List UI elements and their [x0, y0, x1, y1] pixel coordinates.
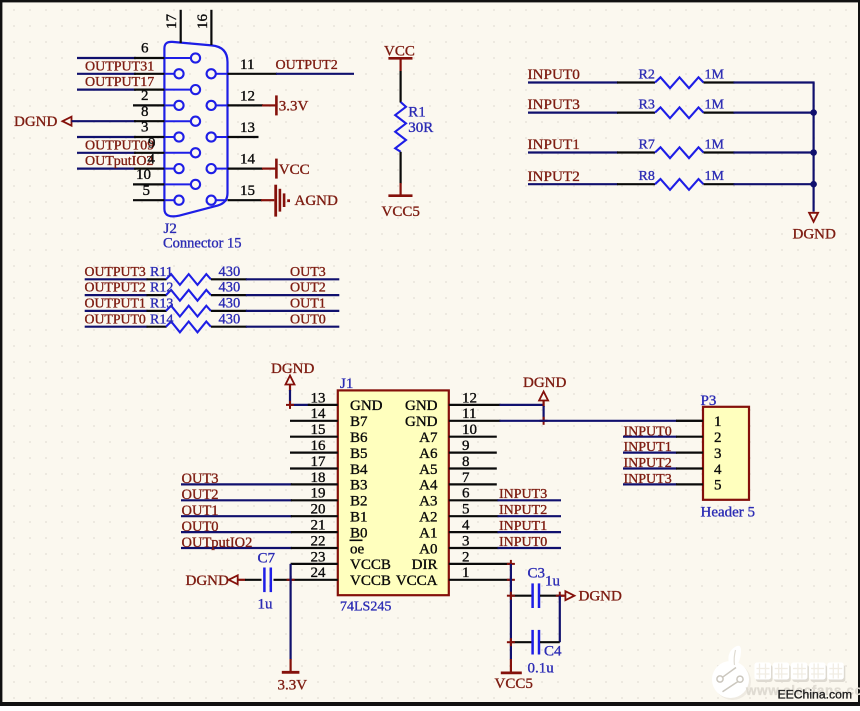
connector J2 pin circles [166, 53, 228, 204]
svg-text:OUTPUT31: OUTPUT31 [85, 59, 154, 74]
svg-text:VCC5: VCC5 [495, 676, 533, 692]
wire DGND bus [812, 83, 814, 212]
svg-text:OUTPUT1: OUTPUT1 [85, 296, 146, 311]
svg-text:1: 1 [714, 414, 722, 430]
wire C3/C4 right leg [559, 596, 561, 643]
svg-text:OUTPUT2: OUTPUT2 [276, 58, 338, 73]
net INPUT3 wire (IC pin 6) [449, 487, 561, 502]
svg-text:13: 13 [240, 120, 255, 136]
power port DGND (J2 pin 8) [14, 114, 72, 130]
junction [287, 576, 295, 584]
svg-text:DGND: DGND [14, 114, 57, 130]
svg-text:GND: GND [405, 414, 438, 430]
net INPUT3 wire (P3 pin 5) [623, 472, 703, 487]
svg-text:8: 8 [141, 104, 149, 120]
svg-text:17: 17 [164, 14, 180, 30]
net INPUT1 wire [528, 136, 619, 153]
svg-text:1M: 1M [705, 67, 725, 82]
svg-text:INPUT0: INPUT0 [499, 535, 547, 550]
svg-text:A5: A5 [419, 462, 437, 478]
svg-text:OUTPUT09: OUTPUT09 [85, 138, 154, 153]
svg-text:A7: A7 [419, 430, 438, 446]
svg-text:4: 4 [148, 151, 156, 167]
svg-text:DIR: DIR [412, 557, 438, 573]
svg-text:2: 2 [714, 430, 722, 446]
svg-text:DGND: DGND [579, 589, 622, 605]
svg-text:6: 6 [141, 41, 149, 57]
wire DGND to pin 13 [286, 385, 338, 409]
junction [810, 181, 817, 188]
power port VCC (J2 pin 14) [228, 152, 310, 179]
svg-text:INPUT0: INPUT0 [528, 66, 581, 83]
svg-text:EEChina.com: EEChina.com [778, 688, 853, 702]
svg-text:3: 3 [141, 120, 149, 136]
junction [810, 149, 817, 156]
IC pin 15 wire [290, 436, 338, 438]
svg-text:VCCB: VCCB [350, 557, 391, 573]
IC pin 7 wire [449, 483, 497, 485]
net OUT1 wire [246, 297, 339, 312]
svg-text:INPUT0: INPUT0 [624, 424, 672, 439]
resistor R7 1M [617, 137, 735, 158]
J2 pin 13 wire [228, 120, 259, 137]
svg-text:INPUT2: INPUT2 [624, 456, 672, 471]
svg-text:DGND: DGND [186, 573, 229, 589]
resistor R14 430 [147, 311, 247, 332]
power port DGND (above pin 13) [271, 361, 314, 385]
IC pin 8 wire [449, 467, 497, 469]
svg-text:B5: B5 [350, 446, 368, 462]
power port VCC5 (bottom right) [495, 659, 533, 692]
svg-text:C4: C4 [544, 643, 562, 659]
net INPUT1 wire (P3 pin 3) [623, 440, 703, 455]
svg-text:430: 430 [219, 296, 241, 312]
svg-text:R2: R2 [639, 67, 655, 82]
svg-text:VCC5: VCC5 [382, 204, 420, 220]
IC pin 12 wire [449, 404, 544, 406]
wire DGND drop [540, 401, 548, 425]
svg-text:OUTPUT2: OUTPUT2 [85, 280, 146, 295]
power port VCC5 (R1 bottom) [382, 183, 420, 220]
svg-text:OUT3: OUT3 [182, 471, 219, 487]
svg-text:C7: C7 [258, 550, 276, 566]
svg-text:R13: R13 [150, 297, 173, 312]
svg-text:R14: R14 [150, 312, 173, 327]
svg-text:5: 5 [714, 478, 722, 494]
svg-text:1u: 1u [258, 597, 274, 613]
net OUTPUT0 wire [85, 311, 148, 326]
power port 3.3V (bottom) [278, 659, 308, 694]
net INPUT2 wire (P3 pin 4) [623, 456, 703, 471]
svg-text:B3: B3 [350, 478, 368, 494]
J2 pin 4 wire / net OUTputIO2 [77, 151, 164, 169]
svg-text:P3: P3 [701, 393, 717, 409]
capacitor C7 1u [245, 550, 276, 612]
watermark EEChina.com [778, 688, 853, 702]
svg-text:74LS245: 74LS245 [340, 600, 391, 615]
svg-text:Connector 15: Connector 15 [163, 235, 242, 251]
J2 pin 6 wire [77, 41, 164, 58]
svg-text:B7: B7 [350, 414, 368, 430]
IC pin 1 wire [449, 576, 515, 584]
svg-text:VCCA: VCCA [396, 573, 438, 589]
svg-text:OUT2: OUT2 [182, 487, 219, 503]
svg-text:B1: B1 [350, 510, 368, 526]
pin 17 (top) [164, 10, 181, 43]
net OUTPUT1 wire [85, 296, 148, 311]
svg-text:R1: R1 [408, 104, 426, 120]
svg-text:9: 9 [148, 136, 156, 152]
net OUT0 wire (IC pin 21) [181, 519, 338, 535]
net OUTPUT2 wire [85, 280, 148, 295]
svg-text:C3: C3 [528, 565, 546, 581]
svg-text:INPUT3: INPUT3 [528, 96, 580, 113]
power port DGND (above P3 wire) [523, 375, 566, 401]
svg-text:OUT3: OUT3 [290, 265, 326, 280]
J2 pin 7 wire / net OUTPUT17 [77, 75, 164, 90]
IC J1 pin labels and numbers [311, 390, 478, 589]
IC pin 16 wire [290, 452, 338, 454]
svg-text:B6: B6 [350, 430, 368, 446]
svg-text:GND: GND [350, 398, 383, 414]
svg-text:R7: R7 [639, 137, 655, 152]
J2 designator [164, 221, 177, 237]
svg-text:DGND: DGND [523, 375, 566, 391]
svg-text:R3: R3 [639, 97, 655, 112]
power port DGND (C7 left) [186, 573, 246, 589]
svg-text:1M: 1M [705, 137, 725, 152]
net OUT3 wire [246, 265, 339, 280]
svg-text:OUT2: OUT2 [290, 281, 326, 296]
wire [734, 111, 815, 113]
svg-text:R8: R8 [639, 169, 655, 184]
pin 16 (top) [195, 10, 211, 45]
watermark logo [712, 646, 751, 700]
wire [734, 81, 815, 83]
junction [810, 109, 817, 116]
svg-text:J1: J1 [340, 376, 353, 392]
op-amp U1 74LS245 IC J1 body [338, 376, 449, 614]
svg-text:3: 3 [714, 446, 722, 462]
svg-text:R12: R12 [150, 281, 173, 296]
svg-text:1M: 1M [705, 169, 725, 184]
J2 pin 2 wire [133, 88, 164, 105]
net INPUT2 wire [528, 168, 619, 185]
svg-text:3.3V: 3.3V [279, 99, 309, 115]
J2 pin 1 wire / net OUTPUT31 [77, 59, 164, 74]
svg-text:R11: R11 [150, 265, 173, 280]
svg-text:OUT0: OUT0 [290, 312, 326, 327]
svg-text:AGND: AGND [295, 193, 338, 209]
svg-text:16: 16 [195, 14, 211, 30]
J2 pin 11 wire / net OUTPUT2 [228, 57, 355, 74]
IC pin 11 wire to P3 pin 1 [449, 420, 703, 422]
svg-text:INPUT2: INPUT2 [499, 503, 547, 518]
svg-text:4: 4 [714, 462, 722, 478]
power port 3.3V (J2 pin 12) [228, 88, 309, 115]
connector J2 body [164, 42, 227, 217]
svg-text:430: 430 [219, 280, 241, 296]
net INPUT2 wire (IC pin 5) [449, 503, 561, 518]
wire to 3.3V [290, 564, 292, 660]
watermark url ghost [745, 683, 860, 698]
resistor R8 1M [617, 169, 735, 190]
IC pin 24 wire [274, 579, 338, 581]
net INPUT3 wire [528, 96, 619, 113]
svg-text:2: 2 [141, 88, 149, 104]
resistor R12 430 [147, 280, 247, 301]
svg-text:15: 15 [240, 183, 255, 199]
svg-text:OUT0: OUT0 [182, 519, 219, 535]
IC pin 9 wire [449, 452, 497, 454]
svg-text:1u: 1u [545, 574, 561, 590]
svg-text:INPUT1: INPUT1 [624, 440, 672, 455]
svg-text:A0: A0 [419, 541, 437, 557]
net INPUT0 wire (P3 pin 2) [623, 424, 703, 439]
resistor R11 430 [147, 264, 247, 285]
svg-text:11: 11 [240, 57, 254, 73]
svg-text:OUTPUT3: OUTPUT3 [85, 264, 146, 279]
svg-text:INPUT1: INPUT1 [528, 136, 580, 153]
wire [734, 183, 815, 185]
svg-text:30R: 30R [408, 120, 433, 136]
wire [400, 71, 402, 103]
svg-text:GND: GND [405, 398, 438, 414]
svg-text:VCC: VCC [279, 162, 310, 178]
J2 pin 3 wire [77, 120, 164, 137]
IC pin 2 wire [449, 560, 515, 568]
svg-text:0.1u: 0.1u [528, 661, 555, 677]
wire [734, 151, 815, 153]
wire [400, 152, 402, 184]
power port AGND (J2 pin 15) [228, 183, 338, 216]
svg-text:OUTputIO2: OUTputIO2 [182, 535, 253, 551]
svg-text:A2: A2 [419, 510, 437, 526]
net INPUT1 wire (IC pin 4) [449, 519, 561, 534]
svg-text:INPUT3: INPUT3 [624, 472, 672, 487]
P3 pin numbers [714, 414, 722, 494]
svg-text:VCCB: VCCB [350, 573, 391, 589]
svg-text:INPUT2: INPUT2 [528, 168, 580, 185]
IC pin 14 wire [290, 420, 338, 422]
J2 pin 9 wire / net OUTPUT09 [77, 136, 164, 154]
svg-text:OUT1: OUT1 [290, 297, 326, 312]
resistor R13 430 [147, 296, 247, 317]
svg-text:B4: B4 [350, 462, 368, 478]
svg-text:10: 10 [136, 167, 151, 183]
net OUTPUT3 wire [85, 264, 148, 279]
svg-text:5: 5 [143, 183, 151, 199]
svg-text:INPUT1: INPUT1 [499, 519, 547, 534]
svg-text:1M: 1M [705, 97, 725, 112]
net OUT0 wire [246, 312, 339, 327]
capacitor C4 0.1u [507, 630, 562, 677]
svg-text:DGND: DGND [271, 361, 314, 377]
svg-text:430: 430 [219, 264, 241, 280]
resistor R2 1M [617, 67, 735, 88]
power port DGND (C3 right) [560, 589, 622, 605]
net OUTputIO2 wire (IC pin 22) [181, 535, 338, 551]
power port DGND (bus bottom) [793, 213, 836, 243]
svg-text:12: 12 [240, 88, 255, 104]
P3 pin 1 wire [676, 420, 703, 422]
svg-text:B0: B0 [350, 525, 368, 541]
svg-text:430: 430 [219, 311, 241, 327]
watermark chinese characters [755, 663, 846, 683]
svg-text:3.3V: 3.3V [278, 678, 308, 694]
svg-text:14: 14 [240, 152, 256, 168]
IC pin 17 wire [290, 467, 338, 469]
IC pin 10 wire [449, 436, 497, 438]
resistor R1 30R [395, 102, 433, 152]
net OUT1 wire (IC pin 20) [181, 503, 338, 519]
svg-text:Header 5: Header 5 [701, 505, 756, 521]
power port VCC (R1 top) [384, 44, 415, 72]
svg-text:OUTPUT0: OUTPUT0 [85, 311, 146, 326]
svg-text:A1: A1 [419, 525, 437, 541]
net OUT3 wire (IC pin 18) [181, 471, 338, 487]
J2 pin 5 wire [133, 183, 164, 200]
J2 pin 10 wire [133, 167, 164, 184]
resistor R3 1M [617, 97, 735, 118]
net OUT2 wire (IC pin 19) [181, 487, 338, 503]
svg-text:DGND: DGND [793, 227, 836, 243]
svg-text:B2: B2 [350, 494, 368, 510]
net OUT2 wire [246, 281, 339, 296]
svg-text:A4: A4 [419, 478, 438, 494]
wire VCC5 riser [510, 564, 512, 660]
net INPUT0 wire [528, 66, 619, 83]
J2 comment Connector 15 [163, 235, 242, 251]
svg-text:A3: A3 [419, 494, 437, 510]
IC pin 23 wire [291, 563, 338, 565]
svg-text:oe: oe [350, 541, 365, 557]
svg-text:OUT1: OUT1 [182, 503, 219, 519]
connector P3 body [701, 393, 756, 521]
capacitor C3 1u [507, 565, 564, 608]
J2 pin 8 wire [72, 104, 165, 121]
net INPUT0 wire (IC pin 3) [449, 535, 561, 550]
svg-text:A6: A6 [419, 446, 438, 462]
svg-text:INPUT3: INPUT3 [499, 487, 547, 502]
